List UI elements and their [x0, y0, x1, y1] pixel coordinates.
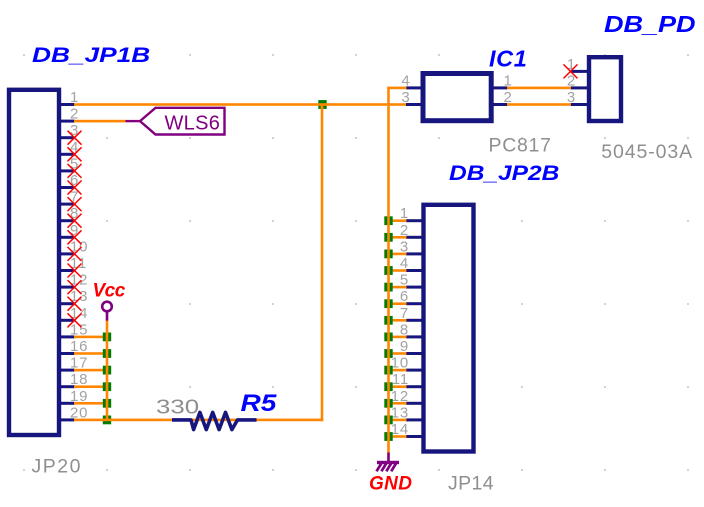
svg-text:GND: GND	[369, 473, 412, 494]
pin 12 of JP1B	[60, 272, 88, 289]
pin 13 of JP2B	[391, 404, 423, 421]
junction at GND rail, JP2B pin 8	[384, 333, 392, 342]
pin 9 of JP1B	[60, 222, 79, 239]
pin 4 of IC1	[401, 72, 421, 89]
wire JP1B pin 18 to Vcc rail	[74, 385, 107, 388]
resistor R5	[172, 412, 257, 429]
svg-text:JP20: JP20	[32, 456, 82, 478]
pin 11 of JP1B	[60, 255, 87, 272]
connector DB_PD body	[589, 57, 621, 121]
pin 2 of JP2B	[400, 222, 423, 239]
pin 13 of JP1B	[60, 288, 88, 305]
svg-text:DB_JP2B: DB_JP2B	[449, 160, 559, 184]
no-connect X on JP1B pin 5	[68, 164, 82, 178]
junction at GND rail, JP2B pin 3	[384, 250, 392, 259]
wire JP2B pin 4 to GND rail	[389, 269, 407, 272]
wire JP2B pin 10 to GND rail	[389, 369, 407, 372]
pin 8 of JP1B	[60, 205, 79, 222]
junction at GND rail, JP2B pin 6	[384, 299, 392, 308]
pin 5 of JP1B	[60, 155, 79, 172]
wire IC1 pin 2 to DB_PD pin 3	[507, 103, 571, 106]
pin 1 of DB_PD	[567, 56, 588, 73]
pin 3 of JP2B	[400, 238, 423, 255]
no-connect X on JP1B pin 4	[68, 147, 82, 161]
junction at Vcc rail, JP1B pin 18	[103, 382, 111, 391]
Vcc vertical rail wire	[106, 320, 109, 420]
no-connect X on JP1B pin 7	[68, 197, 82, 211]
pin 3 of JP1B	[60, 122, 79, 139]
no-connect X on JP1B pin 8	[68, 214, 82, 228]
pin 1 of IC1	[493, 72, 513, 89]
wire JP2B pin 8 to GND rail	[389, 336, 407, 339]
connector JP1B (JP20) body	[9, 90, 59, 435]
pin 6 of JP1B	[60, 172, 79, 189]
no-connect X on JP1B pin 13	[68, 297, 82, 311]
junction at GND rail, JP2B pin 14	[384, 432, 392, 441]
svg-text:IC1: IC1	[489, 45, 527, 71]
wire JP2B pin 7 to GND rail	[389, 319, 407, 322]
GND power ground symbol	[377, 453, 400, 472]
main horizontal wire JP1B pin1 to IC1 pin 3	[74, 103, 406, 106]
junction at GND rail, JP2B pin 13	[384, 416, 392, 425]
svg-text:R5: R5	[241, 389, 277, 417]
no-connect X on JP1B pin 9	[68, 230, 82, 244]
pin 4 of JP2B	[400, 255, 423, 272]
junction at Vcc rail, JP1B pin 20 wire	[103, 416, 111, 425]
wire JP2B pin 6 to GND rail	[389, 302, 407, 305]
pin 2 of IC1	[493, 89, 513, 106]
svg-text:5045-03A: 5045-03A	[601, 141, 693, 163]
pin 2 of DB_PD	[567, 72, 588, 89]
junction at GND rail, JP2B pin 11	[384, 382, 392, 391]
junction at Vcc rail, JP1B pin 16	[103, 349, 111, 358]
junction at GND rail, JP2B pin 7	[384, 316, 392, 325]
pin 1 of JP1B	[60, 89, 79, 106]
pin 17 of JP1B	[60, 355, 88, 372]
junction at GND rail, JP2B pin 10	[384, 366, 392, 375]
pin 2 of JP1B	[60, 106, 79, 123]
wire JP1B pin 16 to Vcc rail	[74, 352, 107, 355]
horizontal wire JP1B pin20 to R5 to vertical	[74, 419, 323, 422]
junction at GND rail, JP2B pin 12	[384, 399, 392, 408]
svg-text:Vcc: Vcc	[93, 281, 126, 302]
wire GND rail corner to IC1 pin 4	[387, 87, 406, 90]
no-connect X on JP1B pin 11	[68, 264, 82, 278]
optocoupler IC1 body	[423, 74, 491, 121]
pin 3 of IC1	[401, 89, 421, 106]
wire IC1 pin 1 to DB_PD pin 2	[507, 87, 571, 90]
pin 14 of JP1B	[60, 305, 88, 322]
pin 7 of JP2B	[400, 305, 423, 322]
no-connect X on JP1B pin 6	[68, 181, 82, 195]
pin 3 of DB_PD	[567, 89, 588, 106]
pin 4 of JP1B	[60, 139, 79, 156]
pin 16 of JP1B	[60, 338, 88, 355]
svg-text:PC817: PC817	[489, 134, 552, 156]
connector JP2B (JP14) body	[424, 205, 474, 452]
pin 15 of JP1B	[60, 321, 88, 338]
junction at Vcc rail, JP1B pin 19	[103, 399, 111, 408]
svg-text:DB_JP1B: DB_JP1B	[32, 43, 150, 67]
pin 5 of JP2B	[400, 272, 423, 289]
wire JP1B pin 15 to Vcc rail	[74, 336, 107, 339]
Vcc power symbol	[102, 302, 112, 321]
wire JP2B pin 14 to GND rail	[389, 435, 407, 438]
pin 11 of JP2B	[392, 371, 423, 388]
wire JP1B pin 17 to Vcc rail	[74, 369, 107, 372]
no-connect X on DB_PD pin 1	[564, 64, 578, 78]
no-connect X on JP1B pin 10	[68, 247, 82, 261]
pin 10 of JP1B	[60, 238, 88, 255]
junction on main wire at x=322	[318, 100, 326, 109]
no-connect X on JP1B pin 3	[68, 131, 82, 145]
pin 20 of JP1B	[60, 404, 88, 421]
pin 6 of JP2B	[400, 288, 423, 305]
wire JP2B pin 3 to GND rail	[389, 253, 407, 256]
pin 18 of JP1B	[60, 371, 88, 388]
svg-text:WLS6: WLS6	[165, 113, 221, 135]
wire JP1B pin 19 to Vcc rail	[74, 402, 107, 405]
wire JP2B pin 5 to GND rail	[389, 286, 407, 289]
pin 7 of JP1B	[60, 189, 79, 206]
wire JP2B pin 9 to GND rail	[389, 352, 407, 355]
junction at Vcc rail, JP1B pin 15	[103, 333, 111, 342]
svg-text:JP14: JP14	[448, 473, 494, 495]
svg-text:330: 330	[156, 395, 199, 418]
pin 19 of JP1B	[60, 388, 88, 405]
no-connect X on JP1B pin 14	[68, 313, 82, 327]
pin 10 of JP2B	[391, 355, 423, 372]
junction at Vcc rail, JP1B pin 17	[103, 366, 111, 375]
junction at GND rail, JP2B pin 5	[384, 283, 392, 292]
GND vertical rail wire	[387, 88, 390, 454]
vertical wire from main wire down to R5 wire	[321, 105, 324, 422]
wire JP1B pin2 to WLS6 label	[74, 120, 126, 123]
wire JP2B pin 12 to GND rail	[389, 402, 407, 405]
pin 8 of JP2B	[400, 321, 423, 338]
svg-text:DB_PD: DB_PD	[604, 12, 696, 38]
wire JP2B pin 2 to GND rail	[389, 236, 407, 239]
pin 14 of JP2B	[391, 421, 423, 438]
junction at GND rail, JP2B pin 1	[384, 216, 392, 225]
pin 1 of JP2B	[400, 205, 423, 222]
WLS6 net label flag	[126, 108, 225, 135]
pin 12 of JP2B	[391, 388, 423, 405]
wire JP2B pin 11 to GND rail	[389, 385, 407, 388]
no-connect X on JP1B pin 12	[68, 280, 82, 294]
junction at GND rail, JP2B pin 4	[384, 266, 392, 275]
junction at GND rail, JP2B pin 2	[384, 233, 392, 242]
pin 9 of JP2B	[400, 338, 423, 355]
junction at GND rail, JP2B pin 9	[384, 349, 392, 358]
wire JP2B pin 1 to GND rail	[389, 219, 407, 222]
wire JP2B pin 13 to GND rail	[389, 419, 407, 422]
